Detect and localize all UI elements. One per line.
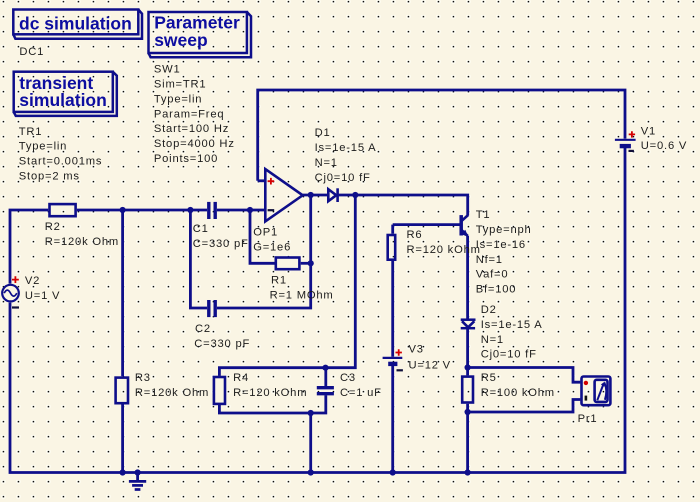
- svg-text:simulation: simulation: [19, 90, 107, 110]
- svg-text:Param=Freq: Param=Freq: [154, 108, 225, 120]
- svg-text:Cj0=10 fF: Cj0=10 fF: [315, 172, 371, 184]
- svg-text:R=120 kOhm: R=120 kOhm: [407, 244, 481, 256]
- svg-text:Cj0=10 fF: Cj0=10 fF: [481, 349, 537, 361]
- svg-text:Type=nph: Type=nph: [476, 224, 532, 236]
- svg-text:R1: R1: [271, 275, 287, 287]
- svg-text:N=1: N=1: [315, 157, 338, 169]
- svg-text:R=120k Ohm: R=120k Ohm: [45, 236, 119, 248]
- svg-text:SW1: SW1: [154, 64, 181, 76]
- svg-text:V3: V3: [409, 344, 424, 356]
- svg-text:Points=100: Points=100: [154, 153, 218, 165]
- svg-text:C2: C2: [195, 323, 211, 335]
- svg-text:U=0.6 V: U=0.6 V: [641, 140, 687, 152]
- svg-text:T1: T1: [476, 209, 491, 221]
- svg-text:Start=100 Hz: Start=100 Hz: [154, 123, 229, 135]
- svg-text:Vaf=0: Vaf=0: [476, 269, 509, 281]
- svg-text:Type=lin: Type=lin: [19, 141, 67, 153]
- svg-text:Is=1e-15 A: Is=1e-15 A: [315, 142, 377, 154]
- svg-text:D1: D1: [315, 127, 331, 139]
- svg-text:R=100 kOhm: R=100 kOhm: [481, 387, 555, 399]
- svg-text:C=330 pF: C=330 pF: [193, 238, 249, 250]
- svg-text:DC1: DC1: [19, 46, 44, 58]
- svg-text:U=1 V: U=1 V: [25, 290, 60, 302]
- svg-text:OP1: OP1: [253, 227, 278, 239]
- svg-text:R4: R4: [233, 372, 249, 384]
- svg-text:Pr1: Pr1: [578, 413, 598, 425]
- svg-text:D2: D2: [481, 304, 497, 316]
- svg-text:R3: R3: [135, 372, 151, 384]
- svg-text:R=120k Ohm: R=120k Ohm: [135, 387, 209, 399]
- svg-text:dc simulation: dc simulation: [19, 13, 132, 33]
- svg-text:Stop=4000 Hz: Stop=4000 Hz: [154, 138, 235, 150]
- svg-text:U=12 V: U=12 V: [409, 359, 451, 371]
- svg-text:Start=0.001ms: Start=0.001ms: [19, 156, 102, 168]
- svg-text:TR1: TR1: [19, 126, 43, 138]
- svg-text:Type=lin: Type=lin: [154, 93, 202, 105]
- svg-text:Bf=100: Bf=100: [476, 284, 517, 296]
- svg-text:R6: R6: [407, 229, 423, 241]
- svg-text:Stop=2 ms: Stop=2 ms: [19, 171, 80, 183]
- svg-text:R=120 kOhm: R=120 kOhm: [233, 387, 307, 399]
- svg-text:N=1: N=1: [481, 334, 504, 346]
- svg-text:C=330 pF: C=330 pF: [194, 338, 250, 350]
- svg-text:G=1e6: G=1e6: [253, 242, 291, 254]
- svg-text:V2: V2: [25, 275, 40, 287]
- svg-text:C3: C3: [340, 372, 356, 384]
- svg-text:Is=1e-16: Is=1e-16: [476, 239, 526, 251]
- svg-text:R5: R5: [481, 372, 497, 384]
- svg-text:Sim=TR1: Sim=TR1: [154, 79, 207, 91]
- svg-text:R2: R2: [45, 221, 61, 233]
- svg-text:C1: C1: [193, 223, 209, 235]
- svg-text:R=1 MOhm: R=1 MOhm: [270, 290, 334, 302]
- svg-text:C=1 uF: C=1 uF: [340, 387, 382, 399]
- svg-text:sweep: sweep: [154, 30, 208, 50]
- svg-text:V1: V1: [641, 125, 656, 137]
- svg-text:Is=1e-15 A: Is=1e-15 A: [481, 319, 543, 331]
